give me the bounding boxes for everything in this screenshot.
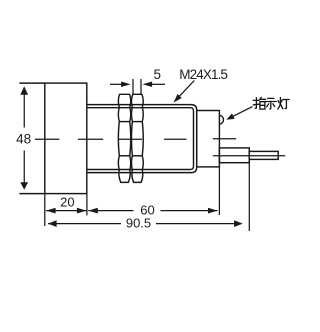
rear housing [197, 111, 220, 167]
top extension line [19, 82, 44, 84]
dim 5 arrow line left [110, 83, 122, 85]
dim 90.5 line right part [156, 223, 235, 225]
dim 60 line left part [88, 210, 133, 212]
indicator leader arrowhead [226, 114, 234, 120]
svg-text:90.5: 90.5 [126, 216, 151, 231]
dim 90.5 arrowhead left [48, 220, 57, 227]
bottom extension line [19, 193, 44, 195]
dim 48 line upper part [23, 95, 25, 128]
center axis dash at block left edge [35, 138, 59, 140]
dim 48 arrowhead down [20, 182, 28, 190]
center axis dash across nuts [118, 138, 142, 140]
threaded tube outer outline [87, 105, 197, 173]
indicator LED bump [220, 115, 224, 124]
dim 20 arrowhead left [46, 208, 56, 214]
hex nut 1 outline [118, 94, 130, 182]
hex nut 1 facet line upper [119, 121, 130, 123]
cable [249, 151, 278, 159]
dim 5 arrowhead left [143, 82, 153, 88]
char shi4 (show) [268, 97, 274, 99]
hex nut 2 outline [131, 94, 143, 182]
M24X1.5 leader arrowhead [174, 94, 182, 103]
dim 60 line right part [161, 210, 218, 212]
dim 5 arrowhead right [121, 82, 131, 88]
hex nut 1 facet line lower [119, 155, 130, 157]
dim 20 line [46, 210, 86, 212]
svg-text:5: 5 [153, 67, 161, 82]
char deng1 (lamp) [278, 101, 279, 103]
dim 48 arrowhead up [20, 86, 28, 95]
dim 90.5 arrowhead right [234, 220, 243, 227]
label 指示灯 (drawn as strokes) [253, 97, 289, 109]
dim 20 arrowhead right [77, 208, 87, 214]
char zhi3 (finger) [255, 98, 256, 109]
svg-text:48: 48 [16, 131, 31, 146]
center axis dash at rear housing edge [213, 138, 236, 140]
dim 5 extension line right [140, 79, 142, 94]
hex nut 2 facet line lower [132, 155, 142, 157]
cable center line [213, 155, 285, 157]
dim 5 extension line left [132, 79, 134, 94]
center axis dash at block right edge [78, 138, 103, 140]
svg-text:M24X1.5: M24X1.5 [179, 67, 227, 82]
M24X1.5 leader line [179, 81, 195, 98]
left mounting block [45, 83, 87, 194]
gland dim extension [248, 163, 250, 231]
dim 90.5 line left part [48, 223, 121, 225]
dim 60 arrowhead left [88, 208, 98, 214]
cable gland [219, 148, 249, 163]
svg-text:20: 20 [60, 195, 74, 210]
block bottom dim extension right [86, 194, 88, 216]
indicator leader line [233, 107, 253, 117]
block bottom dim extension left [44, 194, 46, 226]
dim 5 arrow line right [152, 83, 165, 85]
rear housing dim extension [218, 167, 220, 215]
hex nut 2 facet line upper [132, 121, 142, 123]
dim 48 line lower part [23, 151, 25, 183]
center axis dash inside barrel [164, 138, 186, 140]
dim 60 arrowhead right [208, 208, 218, 214]
threaded tube inner outline [87, 108, 194, 170]
